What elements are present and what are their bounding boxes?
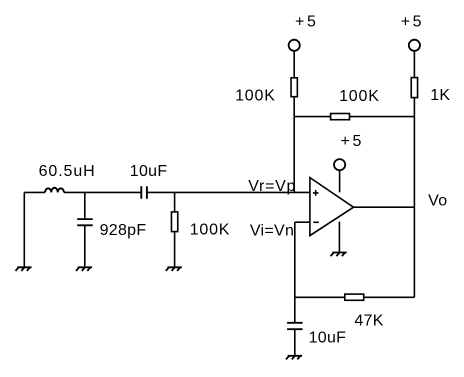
- wire: +5 terminal to 100K pull-up: [293, 51, 295, 78]
- svg-text:+5: +5: [341, 133, 364, 150]
- svg-text:100K: 100K: [235, 87, 276, 104]
- resistor 47K (feedback): [345, 294, 364, 300]
- wire: 10uF to ground: [294, 329, 296, 356]
- wire: supply stub into op-amp: [339, 170, 341, 192]
- wire: feedback bottom wire right segment: [364, 296, 415, 298]
- capacitor C 10uF (series): [141, 186, 147, 199]
- wire: feedback node down to 10uF capacitor: [294, 297, 296, 323]
- resistor 100K (shunt): [171, 212, 177, 232]
- node: junction main wire / 100K shunt resistor: [174, 192, 176, 212]
- pin label - (inverting input): [313, 221, 319, 223]
- wire: 100K pull-up down to top-wire junction: [293, 97, 295, 117]
- ground (928pF): [76, 267, 92, 271]
- svg-text:Vo: Vo: [428, 193, 447, 210]
- ground (left input): [16, 267, 32, 271]
- wire: op-amp ground stub: [338, 222, 340, 253]
- capacitor C 928pF: [77, 219, 93, 225]
- ground (100K shunt): [166, 267, 182, 271]
- svg-text:100K: 100K: [190, 222, 231, 239]
- wire: 100K shunt to ground: [174, 232, 176, 268]
- svg-text:60.5uH: 60.5uH: [39, 163, 96, 180]
- power terminal +5 (left pull-up): [289, 40, 300, 51]
- ground (op-amp): [331, 253, 347, 257]
- wire: inverting input to feedback node: [295, 221, 310, 223]
- svg-text:+5: +5: [401, 13, 424, 30]
- wire: feedback node vertical down: [294, 222, 296, 297]
- wire: top horizontal wire right segment: [350, 116, 415, 118]
- op-amp U1 triangle: [310, 178, 354, 236]
- wire: +5 terminal to 1K: [413, 51, 415, 78]
- wire: left input corner, horizontal main wire left of inductor: [24, 191, 45, 193]
- svg-text:928pF: 928pF: [100, 222, 147, 239]
- wire: top horizontal wire left segment: [294, 116, 330, 118]
- svg-text:100K: 100K: [339, 88, 380, 105]
- resistor 100K (horizontal, positive feedback): [331, 114, 350, 120]
- svg-text:+5: +5: [295, 13, 318, 30]
- svg-text:1K: 1K: [430, 87, 450, 104]
- wire: op-amp output to right vertical (node Vo): [354, 206, 415, 208]
- wire: feedback bottom wire left segment: [295, 296, 345, 298]
- power terminal +5 (1K pull-up): [409, 40, 420, 51]
- svg-text:10uF: 10uF: [130, 163, 168, 180]
- wire: series capacitor to op-amp non-inverting input (node Vr=Vp): [147, 191, 310, 193]
- pin label + (non-inverting input): [313, 190, 319, 196]
- capacitor 10uF (to ground): [287, 323, 303, 329]
- svg-text:Vr=Vp: Vr=Vp: [248, 178, 296, 195]
- power terminal +5 (op-amp supply): [334, 159, 345, 170]
- svg-text:Vi=Vn: Vi=Vn: [250, 222, 294, 239]
- inductor 60.5uH: [45, 188, 64, 193]
- svg-text:10uF: 10uF: [309, 329, 347, 346]
- ground (10uF): [286, 356, 302, 360]
- node: junction pull-up / feedback top wire, wire down to non-inverting input: [293, 117, 295, 193]
- wire: left vertical down to ground: [23, 192, 25, 267]
- svg-text:47K: 47K: [354, 313, 383, 330]
- node: junction of inductor / 928pF shunt: [84, 192, 86, 219]
- wire: inductor to series capacitor: [64, 191, 141, 193]
- wire: 928pF to ground: [84, 225, 86, 267]
- wire: 1K down through junctions to output node: [413, 98, 415, 298]
- resistor 1K: [411, 78, 417, 98]
- resistor 100K (pull-up to +5): [291, 78, 297, 97]
